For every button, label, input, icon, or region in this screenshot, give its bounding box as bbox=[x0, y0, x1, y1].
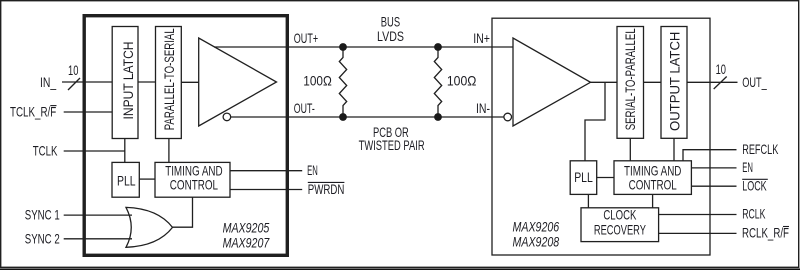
junction dot R1 top bbox=[339, 43, 347, 51]
overline PWRDN bbox=[308, 181, 345, 183]
svg-text:IN_: IN_ bbox=[40, 75, 56, 90]
wire IN_ input bbox=[62, 81, 112, 83]
input latch box U1 bbox=[112, 27, 138, 139]
wire timing and control to PWRDN bbox=[230, 189, 302, 191]
svg-text:SYNC 2: SYNC 2 bbox=[25, 231, 60, 246]
wire receiver output to PLL (step) bbox=[585, 82, 605, 161]
svg-text:PLL: PLL bbox=[117, 174, 136, 189]
bus wire OUT-/IN- bbox=[231, 116, 504, 118]
clock recovery box bbox=[581, 208, 659, 242]
wire RCLK bbox=[659, 214, 737, 216]
termination resistor R1 100 ohm bbox=[339, 47, 346, 117]
wire serial-to-parallel to output latch bbox=[644, 81, 662, 83]
svg-text:OUT+: OUT+ bbox=[294, 31, 318, 46]
bus-width slash (deserializer output) bbox=[714, 77, 727, 90]
svg-text:EN: EN bbox=[307, 163, 318, 178]
svg-text:TCLK: TCLK bbox=[33, 144, 58, 159]
svg-text:INPUT LATCH: INPUT LATCH bbox=[121, 42, 136, 120]
LVDS receiver amplifier bbox=[513, 38, 591, 126]
svg-text:RCLK: RCLK bbox=[742, 207, 766, 222]
wire output latch to timing and control (vertical) bbox=[673, 138, 675, 161]
timing and control box (serializer) bbox=[155, 162, 230, 197]
wire EN (deserializer) bbox=[691, 167, 736, 169]
svg-text:EN: EN bbox=[742, 160, 753, 175]
receiver inversion bubble bbox=[504, 113, 512, 121]
termination resistor R2 100 ohm bbox=[434, 47, 441, 117]
svg-text:MAX9206: MAX9206 bbox=[513, 220, 560, 235]
svg-text:MAX9208: MAX9208 bbox=[513, 234, 560, 249]
svg-text:RCLK_R/F: RCLK_R/F bbox=[742, 226, 789, 241]
wire timing and control to clock recovery bbox=[652, 194, 654, 207]
bus-width slash (serializer input) bbox=[68, 78, 80, 90]
parallel-to-serial box bbox=[156, 27, 182, 139]
svg-text:10: 10 bbox=[68, 63, 79, 78]
svg-text:CONTROL: CONTROL bbox=[170, 177, 218, 192]
svg-text:10: 10 bbox=[716, 62, 727, 77]
wire RCLK_R/F bbox=[659, 232, 737, 234]
driver inversion bubble bbox=[223, 113, 231, 121]
svg-text:TIMING AND: TIMING AND bbox=[624, 164, 681, 179]
timing and control box (deserializer) bbox=[614, 161, 691, 195]
svg-text:100Ω: 100Ω bbox=[447, 74, 477, 89]
LVDS driver amplifier bbox=[199, 38, 277, 126]
svg-text:REFCLK: REFCLK bbox=[742, 142, 779, 157]
wire PLL to timing and control (deserializer) bbox=[597, 177, 614, 179]
svg-text:SERIAL-TO-PARALLEL: SERIAL-TO-PARALLEL bbox=[623, 28, 638, 130]
PLL box (serializer) bbox=[112, 162, 139, 197]
svg-text:SYNC 1: SYNC 1 bbox=[25, 208, 60, 223]
wire PLL to clock recovery bbox=[587, 194, 589, 207]
svg-text:TIMING AND: TIMING AND bbox=[165, 163, 222, 178]
svg-text:MAX9207: MAX9207 bbox=[223, 235, 271, 250]
wire OR gate output to timing and control bbox=[173, 197, 193, 227]
wire TCLK_R/F input bbox=[64, 111, 112, 113]
svg-text:TCLK_R/F: TCLK_R/F bbox=[10, 105, 56, 120]
junction dot R1 bottom bbox=[339, 113, 347, 121]
svg-text:IN-: IN- bbox=[476, 101, 490, 116]
wire LOCK bbox=[691, 185, 736, 187]
overline on F of RCLK_R/F bbox=[783, 226, 789, 228]
svg-text:PARALLEL-TO-SERIAL: PARALLEL-TO-SERIAL bbox=[162, 28, 177, 130]
wire parallel-to-serial to driver bbox=[181, 81, 198, 83]
svg-text:RECOVERY: RECOVERY bbox=[594, 223, 646, 238]
overline on F of TCLK_R/F bbox=[50, 105, 56, 107]
serial-to-parallel box bbox=[617, 27, 644, 139]
svg-text:MAX9205: MAX9205 bbox=[223, 221, 270, 236]
svg-text:CLOCK: CLOCK bbox=[603, 207, 637, 222]
wire input latch to PLL (vertical) bbox=[124, 139, 126, 163]
junction dot R2 bottom bbox=[434, 113, 442, 121]
wire PLL to timing and control bbox=[139, 178, 155, 180]
bus wire OUT+/IN+ bbox=[214, 46, 513, 48]
svg-text:OUTPUT LATCH: OUTPUT LATCH bbox=[668, 32, 683, 131]
serializer block MAX9205/MAX9207 bbox=[84, 16, 287, 256]
svg-text:OUT_: OUT_ bbox=[742, 75, 767, 90]
wire timing and control to EN bbox=[230, 170, 302, 172]
svg-text:LVDS: LVDS bbox=[377, 29, 404, 44]
svg-text:PLL: PLL bbox=[574, 170, 593, 185]
wire REFCLK bbox=[683, 150, 737, 161]
wire SYNC 1 input bbox=[64, 214, 132, 216]
svg-text:100Ω: 100Ω bbox=[303, 74, 332, 89]
svg-text:PWRDN: PWRDN bbox=[308, 182, 345, 197]
wire parallel-to-serial to timing and control (vertical) bbox=[168, 139, 170, 163]
junction dot R2 top bbox=[434, 43, 442, 51]
wire output latch to OUT_ bbox=[687, 81, 738, 83]
svg-text:TWISTED PAIR: TWISTED PAIR bbox=[359, 138, 425, 153]
svg-text:IN+: IN+ bbox=[473, 31, 490, 46]
wire serial-to-parallel to timing and control (vertical) bbox=[629, 138, 631, 161]
svg-text:OUT-: OUT- bbox=[294, 101, 315, 116]
OR gate (sync) bbox=[126, 207, 173, 247]
wire SYNC 2 input bbox=[64, 238, 132, 240]
wire receiver output to serial-to-parallel bbox=[591, 81, 618, 83]
wire input latch to parallel-to-serial bbox=[138, 81, 156, 83]
wire TCLK input bbox=[64, 150, 125, 152]
overline LOCK bbox=[742, 178, 768, 180]
svg-text:BUS: BUS bbox=[381, 14, 400, 29]
output latch box bbox=[661, 27, 687, 139]
deserializer block MAX9206/MAX9208 bbox=[492, 18, 710, 255]
svg-text:CONTROL: CONTROL bbox=[629, 178, 677, 193]
svg-text:LOCK: LOCK bbox=[742, 178, 767, 193]
PLL box (deserializer) bbox=[570, 161, 597, 195]
